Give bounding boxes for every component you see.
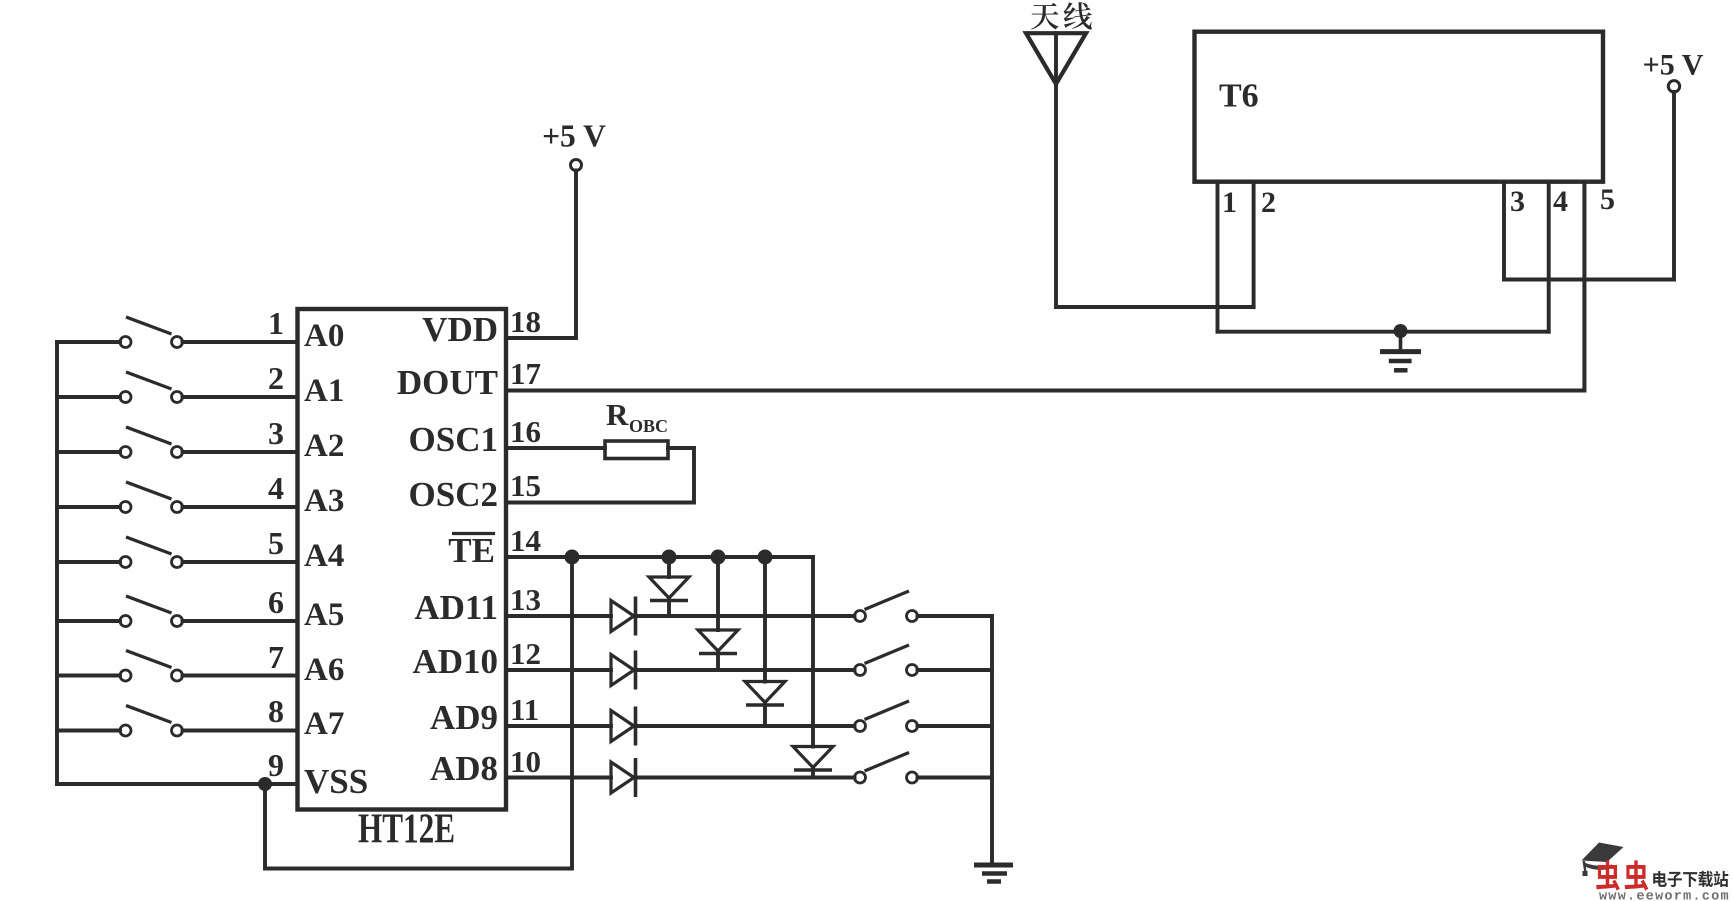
wire: switch S2 to pin 2 bbox=[183, 395, 298, 399]
switch S5 (A4) bbox=[120, 537, 183, 568]
T6 pin 3 lead bbox=[1502, 182, 1506, 280]
svg-text:10: 10 bbox=[510, 744, 541, 779]
resistor R_OBC bbox=[605, 397, 668, 459]
svg-text:2: 2 bbox=[268, 360, 284, 396]
node: junction dot on TE line x=765 bbox=[758, 550, 773, 565]
diode VD4 (horizontal, cathode right) bbox=[611, 758, 636, 797]
wire: TE line down to diode VD5 bbox=[667, 557, 671, 577]
svg-text:A1: A1 bbox=[304, 373, 344, 409]
wire: TE line down to diode VD7 bbox=[763, 557, 767, 682]
wire: switch S8 to pin 8 bbox=[183, 729, 298, 733]
svg-text:OBC: OBC bbox=[629, 416, 668, 436]
svg-text:15: 15 bbox=[510, 468, 541, 503]
svg-text:5: 5 bbox=[1600, 183, 1615, 216]
T6 pin 4 lead bbox=[1547, 182, 1551, 332]
ground symbol (right bus) bbox=[974, 865, 1013, 882]
wire: switch S4 to pin 4 bbox=[183, 505, 298, 509]
node: ground junction dot bbox=[1394, 324, 1408, 338]
T6 pin 1 lead bbox=[1216, 182, 1220, 332]
watermark: 虫虫 red characters bbox=[1596, 860, 1648, 890]
wire: bus to switch S8 bbox=[57, 729, 120, 733]
wire: bus to switch S2 bbox=[57, 395, 120, 399]
wire: switch S6 to pin 6 bbox=[183, 619, 298, 623]
svg-text:AD11: AD11 bbox=[414, 588, 498, 627]
pin label TE bbox=[448, 531, 495, 570]
diode VD5 (vertical, cathode down) bbox=[649, 577, 689, 601]
wire: pin 13 to diode VD1 bbox=[506, 614, 611, 618]
svg-text:AD10: AD10 bbox=[412, 642, 498, 681]
switch S11 bbox=[855, 701, 918, 732]
wire: TE line down to diode VD6 bbox=[716, 557, 720, 630]
wire: bus to switch S3 bbox=[57, 450, 120, 454]
wire: OSC1 to resistor bbox=[506, 446, 605, 450]
T6 pin 5 lead bbox=[1582, 182, 1586, 391]
svg-text:2: 2 bbox=[1261, 186, 1276, 219]
antenna symbol bbox=[1026, 33, 1086, 307]
wire: switch S1 to pin 1 bbox=[183, 340, 298, 344]
wire: diode VD7 to AD line bbox=[763, 705, 767, 726]
svg-text:A0: A0 bbox=[304, 318, 344, 354]
wire: switch S9 to ground bus bbox=[918, 614, 993, 618]
diode VD8 (vertical, cathode down) bbox=[793, 747, 833, 771]
wire: +5V to VDD pin 18 bbox=[506, 171, 576, 339]
diode VD3 (horizontal, cathode right) bbox=[611, 707, 636, 746]
svg-text:6: 6 bbox=[268, 584, 284, 620]
svg-text:DOUT: DOUT bbox=[397, 363, 498, 402]
node: junction dot on TE line x=669 bbox=[662, 550, 677, 565]
svg-text:4: 4 bbox=[1553, 185, 1568, 218]
wire: switch S3 to pin 3 bbox=[183, 450, 298, 454]
wire: antenna to T6 pin 2 bbox=[1056, 305, 1254, 309]
switch S1 (A0) bbox=[120, 317, 183, 348]
wire: switch S7 to pin 7 bbox=[183, 674, 298, 678]
encoder IC U1 HT12E body bbox=[298, 309, 507, 810]
svg-text:A4: A4 bbox=[304, 538, 344, 574]
wire: pin 10 to diode VD4 bbox=[506, 776, 611, 780]
wire: T6 pin 3 to +5V bbox=[1504, 92, 1674, 280]
switch S9 bbox=[855, 591, 918, 622]
label: antenna text 天线 bbox=[1031, 2, 1092, 29]
wire: switch S5 to pin 5 bbox=[183, 560, 298, 564]
switch S8 (A7) bbox=[120, 706, 183, 737]
svg-text:8: 8 bbox=[268, 693, 284, 729]
svg-text:VDD: VDD bbox=[422, 310, 498, 349]
wire: bus to switch S5 bbox=[57, 560, 120, 564]
ground symbol (T6) bbox=[1380, 331, 1421, 370]
svg-text:3: 3 bbox=[268, 415, 284, 451]
diode VD1 (horizontal, cathode right) bbox=[611, 597, 636, 636]
wire: left common bus vertical bbox=[55, 342, 59, 784]
svg-text:A3: A3 bbox=[304, 483, 344, 519]
svg-text:16: 16 bbox=[510, 414, 541, 449]
svg-text:HT12E: HT12E bbox=[358, 807, 455, 853]
wire: TE pin 14 horizontal bbox=[506, 555, 813, 559]
wire: diode VD3 to switch S11 bbox=[636, 724, 855, 728]
wire: T6 pin 1 to pin 4 (ground rail) bbox=[1218, 330, 1549, 334]
switch S10 bbox=[855, 645, 918, 676]
svg-text:T6: T6 bbox=[1219, 78, 1259, 115]
svg-text:TE: TE bbox=[448, 531, 495, 570]
watermark: 电子下载站 text bbox=[1653, 871, 1728, 887]
svg-text:9: 9 bbox=[268, 747, 284, 783]
svg-text:+5 V: +5 V bbox=[542, 119, 606, 154]
wire: pin 12 to diode VD2 bbox=[506, 668, 611, 672]
T6 pin 2 lead bbox=[1252, 182, 1256, 307]
wire: diode VD5 to AD line bbox=[667, 601, 671, 617]
svg-text:OSC1: OSC1 bbox=[409, 420, 498, 459]
wire: DOUT pin 17 to T6 pin 5 bbox=[506, 182, 1584, 391]
wire: bus to switch S7 bbox=[57, 674, 120, 678]
switch S3 (A2) bbox=[120, 427, 183, 458]
node: junction dot on TE line x=572 bbox=[565, 550, 580, 565]
svg-text:A5: A5 bbox=[304, 597, 344, 633]
svg-text:1: 1 bbox=[268, 305, 284, 341]
switch S6 (A5) bbox=[120, 596, 183, 627]
svg-text:1: 1 bbox=[1222, 186, 1237, 219]
wire: diode VD8 to AD line bbox=[811, 770, 815, 778]
diode VD2 (horizontal, cathode right) bbox=[611, 651, 636, 690]
RF transmitter module T6 body bbox=[1195, 32, 1604, 182]
svg-text:VSS: VSS bbox=[304, 762, 368, 801]
svg-text:11: 11 bbox=[510, 692, 539, 727]
wire: bus bottom to VSS pin 9 bbox=[57, 782, 298, 786]
wire: switch S12 to ground bus bbox=[918, 776, 993, 780]
+5V supply terminal (left) bbox=[542, 119, 606, 171]
node: VSS junction dot bbox=[258, 777, 272, 791]
wire: diode VD1 to switch S9 bbox=[636, 614, 855, 618]
wire: bus to switch S6 bbox=[57, 619, 120, 623]
wire: switch S10 to ground bus bbox=[918, 668, 993, 672]
svg-text:17: 17 bbox=[510, 356, 541, 391]
diode VD6 (vertical, cathode down) bbox=[698, 630, 738, 654]
svg-text:4: 4 bbox=[268, 470, 284, 506]
svg-text:7: 7 bbox=[268, 639, 284, 675]
svg-text:AD9: AD9 bbox=[430, 698, 498, 737]
svg-text:A6: A6 bbox=[304, 652, 344, 688]
svg-text:R: R bbox=[606, 397, 629, 432]
svg-text:A7: A7 bbox=[304, 706, 344, 742]
wire: TE to VSS return (down, left, up) bbox=[265, 557, 572, 869]
wire: bus to switch S4 bbox=[57, 505, 120, 509]
switch S12 bbox=[855, 753, 918, 784]
svg-text:AD8: AD8 bbox=[430, 749, 498, 788]
node: junction dot on TE line x=718 bbox=[711, 550, 726, 565]
watermark: graduation cap logo bbox=[1582, 843, 1624, 877]
svg-text:13: 13 bbox=[510, 582, 541, 617]
switch S4 (A3) bbox=[120, 482, 183, 513]
svg-text:+5 V: +5 V bbox=[1643, 49, 1704, 82]
wire: diode VD2 to switch S10 bbox=[636, 668, 855, 672]
svg-text:18: 18 bbox=[510, 304, 541, 339]
svg-text:OSC2: OSC2 bbox=[409, 475, 498, 514]
svg-text:3: 3 bbox=[1510, 185, 1525, 218]
wire: pin 11 to diode VD3 bbox=[506, 724, 611, 728]
svg-text:14: 14 bbox=[510, 523, 541, 558]
wire: diode VD6 to AD line bbox=[716, 654, 720, 671]
wire: resistor to OSC2 bbox=[506, 448, 694, 503]
+5V supply terminal (right) bbox=[1643, 49, 1704, 93]
wire: right ground bus vertical bbox=[990, 616, 994, 865]
diode VD7 (vertical, cathode down) bbox=[745, 682, 785, 706]
wire: switch S11 to ground bus bbox=[918, 724, 993, 728]
svg-text:12: 12 bbox=[510, 636, 541, 671]
switch S7 (A6) bbox=[120, 651, 183, 682]
wire: TE line down to diode VD8 bbox=[811, 557, 815, 747]
wire: diode VD4 to switch S12 bbox=[636, 776, 855, 780]
switch S2 (A1) bbox=[120, 372, 183, 403]
svg-text:A2: A2 bbox=[304, 428, 344, 464]
watermark: www.eeworm.com bbox=[1599, 892, 1728, 899]
svg-text:5: 5 bbox=[268, 525, 284, 561]
wire: bus to switch S1 bbox=[57, 340, 120, 344]
